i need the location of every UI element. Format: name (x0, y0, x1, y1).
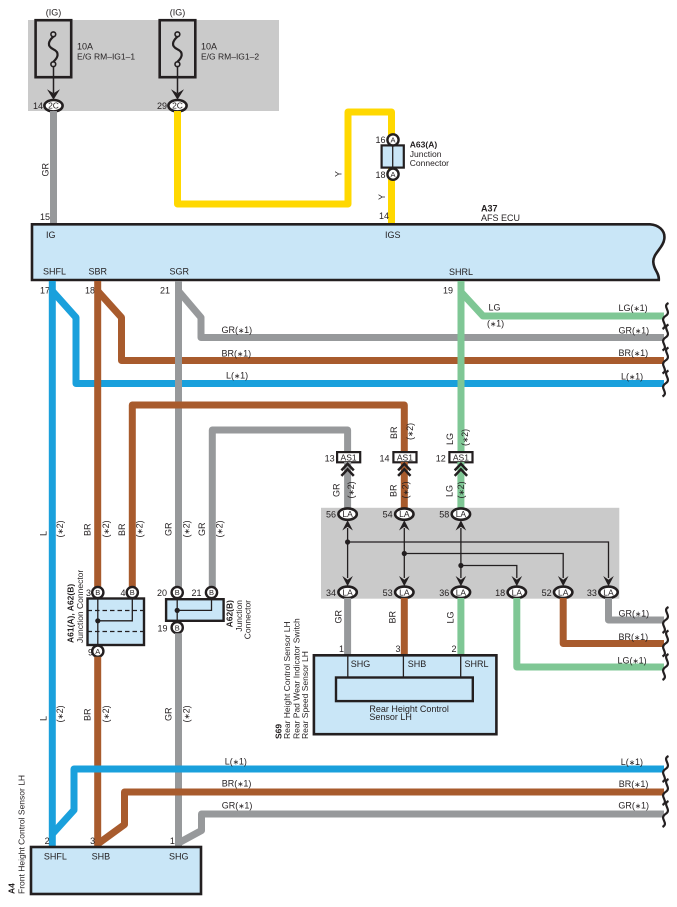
svg-text:BR: BR (388, 610, 398, 623)
svg-text:GR(∗1): GR(∗1) (618, 801, 649, 811)
squiggle GR(*1) mid (663, 607, 669, 633)
svg-text:L(∗1): L(∗1) (621, 757, 643, 767)
svg-text:E/G RM–IG1–1: E/G RM–IG1–1 (77, 51, 135, 61)
wire L main vertical (ECU 17 to A4 pin 2) (49, 281, 56, 847)
svg-text:GR(∗1): GR(∗1) (222, 801, 253, 811)
svg-text:17: 17 (40, 285, 50, 295)
svg-text:Front Height Control Sensor LH: Front Height Control Sensor LH (17, 775, 27, 894)
connector AS1 pin 13 (337, 452, 360, 462)
internal wire branch to 18 (461, 566, 517, 579)
svg-text:13: 13 (325, 453, 335, 463)
svg-text:BR(∗1): BR(∗1) (619, 348, 649, 358)
svg-text:B: B (175, 588, 180, 597)
squiggle L(*1) (663, 371, 669, 397)
wire fuse F1 to 2C (53, 67, 55, 93)
svg-text:BR(∗1): BR(∗1) (222, 779, 252, 789)
connector AS1 pin 12 (449, 452, 472, 462)
svg-text:(∗2): (∗2) (346, 481, 356, 498)
svg-text:Sensor LH: Sensor LH (369, 712, 412, 722)
wire GR 33 LA to GR(*1) right (609, 598, 665, 620)
svg-text:A: A (390, 170, 395, 179)
wire GR AS1 13 to 56 LA (344, 462, 351, 508)
svg-text:10A: 10A (77, 42, 93, 52)
svg-text:AFS ECU: AFS ECU (481, 213, 520, 223)
svg-text:Rear Height Control Sensor LH: Rear Height Control Sensor LH (282, 621, 292, 739)
node dot 54/52 (402, 551, 407, 556)
chevrons AS1 13 (341, 464, 353, 476)
svg-text:SHFL: SHFL (43, 267, 66, 277)
connector circle B pin 4 (127, 587, 138, 598)
svg-text:(∗2): (∗2) (401, 481, 411, 498)
svg-text:LA: LA (456, 509, 467, 519)
svg-text:(∗1): (∗1) (487, 319, 504, 329)
svg-text:BR(∗1): BR(∗1) (619, 632, 649, 642)
junction connector A63(A) box (382, 145, 404, 167)
svg-text:GR: GR (164, 522, 174, 536)
svg-text:(∗2): (∗2) (405, 423, 415, 440)
svg-text:2: 2 (451, 644, 456, 654)
svg-text:SBR: SBR (89, 267, 108, 277)
svg-text:18: 18 (85, 285, 95, 295)
wire GR 34 LA to S69 pin 1 (344, 598, 351, 656)
svg-text:58: 58 (439, 510, 449, 520)
internal divider pin 3 (402, 657, 404, 678)
squiggle LG(*1) mid (663, 654, 669, 680)
svg-text:54: 54 (383, 510, 393, 520)
svg-text:SHRL: SHRL (465, 659, 489, 669)
svg-text:LA: LA (558, 587, 569, 597)
wire fuse F2 to 2C (177, 67, 179, 93)
S69 inner mechanism rect (336, 678, 473, 702)
svg-text:LG: LG (445, 433, 455, 445)
svg-text:34: 34 (326, 588, 336, 598)
svg-text:4: 4 (120, 588, 125, 598)
svg-text:LG: LG (489, 303, 501, 313)
dashed divider 1 (88, 610, 145, 612)
connector 34 LA (338, 587, 356, 598)
svg-text:(∗2): (∗2) (182, 705, 192, 722)
svg-text:Y: Y (377, 194, 387, 200)
svg-text:A: A (95, 647, 100, 656)
node dot 58/18 (458, 563, 463, 568)
svg-text:LA: LA (399, 509, 410, 519)
wire BR A61 pin 9 to A4 pin 3 (94, 657, 101, 847)
wire GR fuse F1 to ECU pin 15 (50, 111, 57, 223)
svg-text:GR(∗1): GR(∗1) (619, 326, 650, 336)
connector 58 LA (452, 508, 470, 519)
svg-text:L: L (39, 531, 49, 536)
svg-text:GR: GR (164, 707, 174, 721)
svg-text:LA: LA (399, 587, 410, 597)
S69 rear height control sensor box (314, 655, 497, 734)
svg-text:(∗2): (∗2) (55, 705, 65, 722)
svg-text:3: 3 (86, 588, 91, 598)
wire GR main vertical (ECU 21 to A62 pin 20) (175, 281, 182, 588)
internal wire pin20 to pin19 (176, 599, 178, 621)
svg-text:BR: BR (83, 708, 93, 721)
svg-text:18: 18 (375, 170, 385, 180)
ECU A37 box (32, 224, 664, 280)
svg-text:BR: BR (117, 523, 127, 536)
internal divider pin 1 (347, 657, 349, 678)
node dot 56/33 (345, 539, 350, 544)
top gray panel (fuse block shading) (28, 20, 279, 111)
svg-text:(∗2): (∗2) (215, 520, 225, 537)
connector 54 LA (395, 508, 413, 519)
connector 2C (F2) pin 29 (168, 100, 186, 111)
squiggle BR(*1) mid (663, 631, 669, 657)
svg-text:LG(∗1): LG(∗1) (618, 656, 647, 666)
wire LG 18 LA to LG(*1) right (517, 598, 664, 667)
wire GR branch to GR(*1) right (179, 291, 665, 338)
svg-text:SGR: SGR (170, 267, 190, 277)
A4 front height control sensor box (31, 847, 201, 894)
connector 52 LA (554, 587, 572, 598)
svg-text:3: 3 (90, 836, 95, 846)
connector circle B pin 3 (92, 587, 103, 598)
internal wire pin3 to pin9 (97, 599, 99, 646)
squiggle BR(*1) bottom (663, 779, 669, 805)
svg-text:(IG): (IG) (46, 8, 62, 18)
connector AS1 pin 14 (393, 452, 416, 462)
svg-text:18: 18 (495, 588, 505, 598)
svg-text:16: 16 (375, 135, 385, 145)
junction connector A61(A),A62(B) box (88, 599, 145, 646)
internal wire 58 to 36 (460, 528, 462, 578)
dashed divider 2 (88, 631, 145, 633)
svg-text:21: 21 (191, 588, 201, 598)
connector 33 LA (599, 587, 617, 598)
connector 36 LA (452, 587, 470, 598)
fuse F2 10A E/G RM-IG1-2 (160, 20, 196, 77)
internal wire branch to 33 (348, 542, 609, 578)
svg-text:IGS: IGS (385, 230, 401, 240)
svg-text:GR: GR (332, 483, 342, 497)
svg-text:19: 19 (157, 624, 167, 634)
arrow down into 33 LA (603, 576, 614, 586)
svg-text:56: 56 (326, 510, 336, 520)
wire BR loop (A61 pin 4 up over to AS1 14) (132, 405, 404, 588)
svg-text:(∗2): (∗2) (135, 520, 145, 537)
svg-text:20: 20 (157, 588, 167, 598)
svg-text:B: B (130, 588, 135, 597)
fuse F1 10A E/G RM-IG1-1 (36, 20, 72, 77)
svg-text:GR: GR (41, 162, 51, 176)
connector 56 LA (338, 508, 356, 519)
svg-text:SHB: SHB (92, 852, 111, 862)
arrow up into 56 LA (342, 520, 353, 530)
arrow up into 58 LA (456, 520, 467, 530)
svg-text:(∗2): (∗2) (456, 481, 466, 498)
svg-text:E/G RM–IG1–2: E/G RM–IG1–2 (201, 51, 259, 61)
wire BR 52 LA to BR(*1) right (563, 598, 664, 644)
wire L branch to L(*1) right (52, 291, 664, 384)
svg-text:B: B (209, 588, 214, 597)
svg-text:GR: GR (334, 609, 344, 623)
wire BR branch to BR(*1) right (98, 291, 664, 361)
svg-text:GR(∗1): GR(∗1) (222, 325, 253, 335)
arrow into 2C (F2) (171, 89, 184, 100)
svg-text:A62(B): A62(B) (225, 600, 235, 628)
svg-text:2C: 2C (48, 101, 59, 111)
svg-text:SHG: SHG (351, 659, 371, 669)
node dot A61 (95, 618, 100, 623)
wire BR main vertical (ECU 18 to A61 pin 3) (94, 281, 101, 588)
connector 2C (F1) pin 14 (44, 100, 62, 111)
svg-text:IG: IG (46, 230, 56, 240)
svg-text:BR(∗1): BR(∗1) (619, 779, 649, 789)
arrow down into 52 LA (558, 576, 569, 586)
svg-text:L(∗1): L(∗1) (621, 371, 643, 381)
svg-text:14: 14 (33, 101, 43, 111)
svg-text:BR: BR (83, 523, 93, 536)
connector circle A pin 9 (92, 646, 103, 657)
wire BR AS1 14 to 54 LA (401, 462, 408, 508)
arrow down into 53 LA (399, 576, 410, 586)
svg-text:(∗2): (∗2) (101, 705, 111, 722)
arrow down into 36 LA (456, 576, 467, 586)
wire LG main vertical (ECU 19 to AS1 12) (458, 281, 465, 453)
internal wire branch to 52 (404, 554, 563, 579)
connector circle B pin 19 (172, 622, 183, 633)
svg-text:14: 14 (379, 453, 389, 463)
svg-text:LG: LG (446, 611, 456, 623)
svg-text:L(∗1): L(∗1) (226, 371, 248, 381)
svg-text:AS1: AS1 (341, 452, 357, 462)
svg-text:L: L (39, 716, 49, 721)
svg-text:GR: GR (197, 522, 207, 536)
connector circle B pin 21 (206, 587, 217, 598)
svg-text:10A: 10A (201, 42, 217, 52)
wire GR loop (A62 pin 21 up over to AS1 13) (212, 430, 347, 588)
svg-text:B: B (95, 588, 100, 597)
wire Y fuse F2 to A63 to ECU pin 14 (178, 111, 392, 223)
svg-text:29: 29 (157, 101, 167, 111)
svg-text:AS1: AS1 (453, 452, 469, 462)
svg-text:LA: LA (512, 587, 523, 597)
internal wire 54 to 53 (403, 528, 405, 578)
connector 53 LA (395, 587, 413, 598)
arrow up into 54 LA (399, 520, 410, 530)
svg-text:LA: LA (342, 509, 353, 519)
svg-text:Connector: Connector (410, 158, 449, 168)
internal divider pin 2 (460, 657, 462, 678)
svg-text:A4: A4 (7, 883, 17, 894)
chevrons AS1 12 (455, 464, 467, 476)
svg-text:36: 36 (439, 588, 449, 598)
svg-text:Y: Y (334, 171, 344, 177)
internal wire pin4 elbow (98, 599, 133, 621)
wire GR(*1) bottom row (179, 814, 665, 843)
connector circle B pin 20 (172, 587, 183, 598)
arrow down into 34 LA (342, 576, 353, 586)
svg-text:(IG): (IG) (170, 8, 186, 18)
svg-text:1: 1 (170, 836, 175, 846)
svg-text:BR: BR (389, 426, 399, 439)
svg-text:LG: LG (445, 485, 455, 497)
wire LG branch to LG(*1) right (461, 292, 664, 316)
svg-text:SHRL: SHRL (449, 267, 473, 277)
svg-text:AS1: AS1 (397, 452, 413, 462)
squiggle GR(*1) bottom (663, 801, 669, 827)
svg-text:Rear Speed Sensor LH: Rear Speed Sensor LH (300, 651, 310, 739)
connector 18 LA (508, 587, 526, 598)
svg-text:(∗2): (∗2) (101, 520, 111, 537)
node dot A62 (175, 608, 180, 613)
svg-text:19: 19 (443, 285, 453, 295)
wire BR 53 LA to S69 pin 3 (401, 598, 408, 656)
svg-text:(∗2): (∗2) (182, 520, 192, 537)
svg-text:3: 3 (395, 644, 400, 654)
svg-text:2: 2 (45, 836, 50, 846)
svg-text:15: 15 (40, 212, 50, 222)
connector circle A pin 18 (387, 169, 398, 180)
wire LG 36 LA to S69 pin 2 (457, 598, 464, 656)
arrow down into 18 LA (512, 576, 523, 586)
svg-text:LG(∗1): LG(∗1) (619, 303, 648, 313)
internal wire pin21 elbow (177, 599, 211, 610)
svg-text:2C: 2C (172, 101, 183, 111)
svg-text:SHFL: SHFL (44, 852, 67, 862)
squiggle LG(*1) top (663, 303, 669, 329)
connector circle A pin 16 (387, 134, 398, 145)
svg-text:GR(∗1): GR(∗1) (619, 609, 650, 619)
chevrons AS1 14 (398, 464, 410, 476)
junction block gray panel (321, 508, 619, 599)
svg-text:(∗2): (∗2) (55, 520, 65, 537)
wire LG AS1 12 to 58 LA (457, 462, 464, 508)
squiggle L(*1) bottom (663, 756, 669, 782)
svg-text:9: 9 (88, 647, 93, 657)
svg-text:LA: LA (603, 587, 614, 597)
svg-text:A: A (390, 136, 395, 145)
junction connector A62(B) box (166, 599, 224, 621)
svg-text:12: 12 (436, 453, 446, 463)
wire GR A62 pin 19 to A4 pin 1 (175, 633, 182, 847)
svg-text:(∗2): (∗2) (460, 429, 470, 446)
svg-text:SHG: SHG (169, 852, 189, 862)
svg-text:A61(A), A62(B): A61(A), A62(B) (66, 584, 76, 643)
squiggle GR(*1) (663, 325, 669, 351)
squiggle BR(*1) (663, 348, 669, 374)
svg-text:B: B (175, 623, 180, 632)
svg-text:BR(∗1): BR(∗1) (222, 348, 252, 358)
svg-text:SHB: SHB (408, 659, 427, 669)
svg-text:LA: LA (456, 587, 467, 597)
wire BR(*1) bottom row (98, 792, 664, 844)
svg-text:14: 14 (379, 211, 389, 221)
wire L(*1) bottom row (52, 769, 664, 834)
svg-text:Connector: Connector (243, 600, 253, 639)
arrow into 2C (F1) (47, 89, 60, 100)
internal wire 56 to 34 (347, 528, 349, 578)
svg-text:LA: LA (342, 587, 353, 597)
svg-text:Junction Connector: Junction Connector (75, 570, 85, 643)
svg-text:BR: BR (389, 484, 399, 497)
svg-text:1: 1 (339, 644, 344, 654)
svg-text:L(∗1): L(∗1) (225, 757, 247, 767)
svg-text:53: 53 (383, 588, 393, 598)
svg-text:33: 33 (587, 588, 597, 598)
svg-text:52: 52 (542, 588, 552, 598)
svg-text:21: 21 (160, 285, 170, 295)
